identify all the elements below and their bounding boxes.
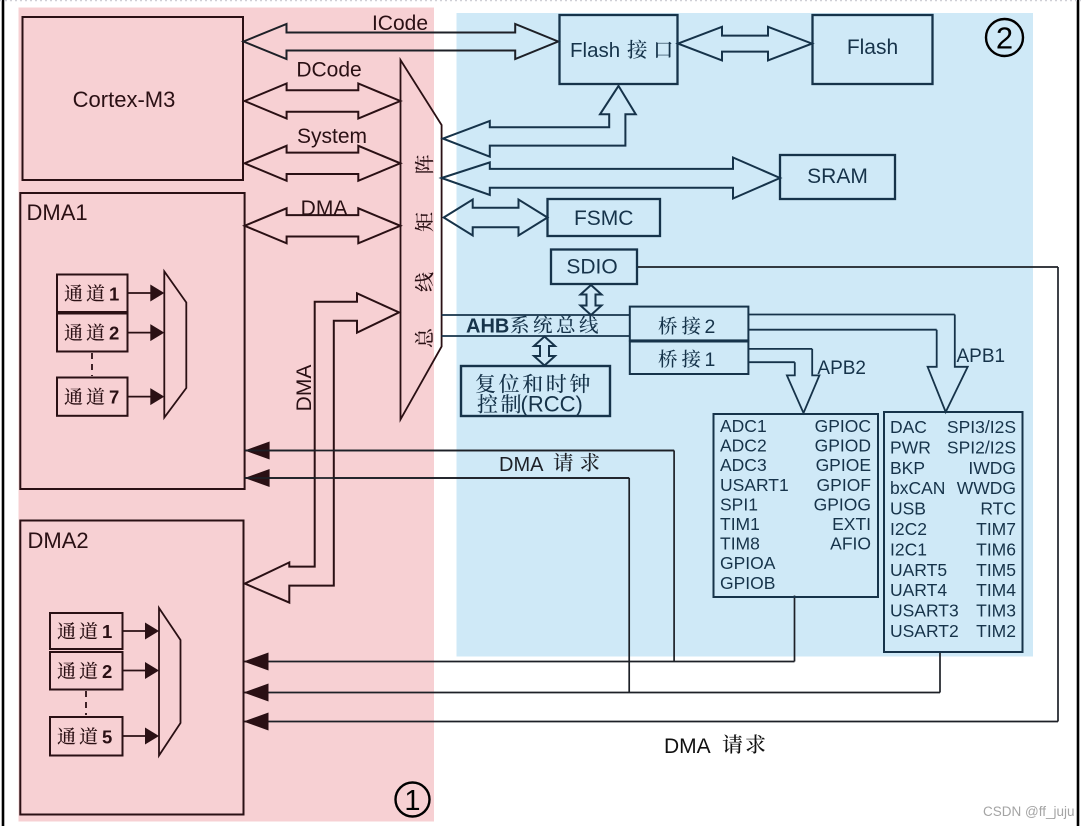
pink region (domain 1: DMA/CPU) <box>19 8 435 822</box>
bent arrow bus matrix to Flash interface <box>443 86 636 157</box>
bus matrix vertical label <box>415 155 433 173</box>
svg-text:WWDG: WWDG <box>957 478 1016 498</box>
svg-text:SDIO: SDIO <box>566 256 617 279</box>
svg-text:Cortex-M3: Cortex-M3 <box>73 87 176 112</box>
svg-text:TIM4: TIM4 <box>976 580 1016 600</box>
DMA2 box <box>20 521 243 815</box>
DMA2 channel 5 box <box>50 717 123 756</box>
svg-text:TIM6: TIM6 <box>976 539 1016 559</box>
svg-text:bxCAN: bxCAN <box>890 478 945 498</box>
svg-text:DMA: DMA <box>293 365 316 412</box>
APB2 hollow down arrow <box>787 349 820 413</box>
svg-text:TIM5: TIM5 <box>976 560 1016 580</box>
svg-text:TIM1: TIM1 <box>720 514 760 534</box>
svg-text:TIM2: TIM2 <box>976 621 1016 641</box>
svg-text:PWR: PWR <box>890 437 931 457</box>
svg-text:DMA2: DMA2 <box>28 528 89 553</box>
svg-text:AFIO: AFIO <box>830 534 871 554</box>
circled 1 <box>396 783 430 817</box>
svg-text:DMA: DMA <box>301 197 348 220</box>
AHB system bus lower line <box>442 335 630 337</box>
DMA2 channel 2 box <box>50 652 123 690</box>
wire DMA2 request line 2 <box>244 692 941 694</box>
wire bridge1 to APB2 (lower) <box>748 361 794 363</box>
svg-text:DAC: DAC <box>890 417 927 437</box>
arrow ch7 to mux <box>128 396 153 398</box>
svg-text:UART5: UART5 <box>890 560 947 580</box>
svg-text:AHB: AHB <box>466 316 509 338</box>
arrow ch2 to mux2 <box>123 670 148 672</box>
SRAM long double arrow <box>442 158 780 199</box>
circled 2 <box>986 19 1023 56</box>
svg-text:1: 1 <box>102 621 112 642</box>
FSMC box <box>548 199 661 236</box>
frame left border <box>2 0 5 826</box>
DMA1 channel 1 box <box>57 275 128 313</box>
svg-text:2: 2 <box>109 323 119 344</box>
svg-text:1: 1 <box>109 283 119 304</box>
svg-text:USB: USB <box>890 499 926 519</box>
SDIO box <box>551 250 637 285</box>
wire vertical from APB2 peripheral box bottom <box>794 596 796 662</box>
wire crossing over DMA arrow (lower) <box>245 477 630 479</box>
svg-text:1: 1 <box>705 349 716 371</box>
svg-text:USART1: USART1 <box>720 475 789 495</box>
svg-text:FSMC: FSMC <box>574 207 634 230</box>
svg-text:SPI3/I2S: SPI3/I2S <box>947 417 1016 437</box>
svg-text:CSDN @ff_juju: CSDN @ff_juju <box>983 804 1075 819</box>
DMA1 mux trapezoid <box>164 271 186 417</box>
bus matrix trapezoid <box>401 60 442 420</box>
svg-text:APB1: APB1 <box>957 346 1006 367</box>
svg-text:GPIOA: GPIOA <box>720 553 776 573</box>
svg-text:GPIOF: GPIOF <box>817 475 871 495</box>
svg-text:BKP: BKP <box>890 458 925 478</box>
frame right border <box>1077 0 1080 826</box>
blue region (domain 2: buses/peripherals) <box>457 13 1034 657</box>
svg-text:TIM7: TIM7 <box>976 519 1016 539</box>
AHB system bus upper line <box>442 314 630 316</box>
svg-text:I2C2: I2C2 <box>890 519 927 539</box>
svg-text:SPI1: SPI1 <box>720 494 758 514</box>
Flash box <box>813 15 933 84</box>
wire DMA request line into DMA1 (upper) <box>245 450 674 452</box>
Flash interface box <box>560 15 678 84</box>
svg-text:SPI2/I2S: SPI2/I2S <box>947 437 1016 457</box>
svg-text:GPIOC: GPIOC <box>815 416 871 436</box>
svg-text:TIM3: TIM3 <box>976 601 1016 621</box>
svg-text:SRAM: SRAM <box>807 165 868 188</box>
svg-text:ADC1: ADC1 <box>720 416 767 436</box>
svg-text:ADC2: ADC2 <box>720 436 767 456</box>
svg-text:APB2: APB2 <box>817 358 866 379</box>
svg-text:GPIOE: GPIOE <box>816 455 871 475</box>
DMA double arrow <box>245 208 401 243</box>
dashed line channels 2..7 <box>91 353 93 376</box>
SRAM box <box>780 155 895 199</box>
svg-text:USART2: USART2 <box>890 621 959 641</box>
svg-text:System: System <box>297 125 367 148</box>
arrow ch1 to mux <box>128 292 153 294</box>
svg-text:UART4: UART4 <box>890 580 947 600</box>
RCC vertical double arrow <box>534 337 555 366</box>
svg-text:USART3: USART3 <box>890 601 959 621</box>
svg-text:GPIOG: GPIOG <box>814 494 871 514</box>
svg-text:EXTI: EXTI <box>832 514 871 534</box>
arrow ch5 to mux2 <box>123 735 148 737</box>
svg-text:Flash: Flash <box>570 39 620 62</box>
wire crossing over DMA arrow (upper) <box>245 450 674 452</box>
bridge2 box <box>630 307 749 341</box>
svg-text:ADC3: ADC3 <box>720 455 767 475</box>
svg-text:GPIOB: GPIOB <box>720 573 775 593</box>
arrow ch1 to mux2 <box>123 630 148 632</box>
svg-text:GPIOD: GPIOD <box>815 436 871 456</box>
svg-text:Flash: Flash <box>847 36 898 59</box>
wire bridge2 to APB1 (upper) <box>748 314 954 316</box>
wire vertical from APB1 peripheral box bottom <box>939 652 941 693</box>
System double arrow <box>245 146 401 181</box>
DCode double arrow <box>245 84 401 119</box>
dashed line channels 2..5 <box>85 691 87 715</box>
CPU Cortex-M3 box <box>23 17 244 180</box>
svg-text:7: 7 <box>109 387 119 408</box>
DMA2 mux trapezoid <box>159 608 181 756</box>
svg-text:I2C1: I2C1 <box>890 539 927 559</box>
wire bridge1 to APB2 (upper) <box>748 348 812 350</box>
APB1 peripherals box <box>884 412 1023 652</box>
svg-text:TIM8: TIM8 <box>720 534 760 554</box>
svg-text:IWDG: IWDG <box>968 458 1016 478</box>
svg-text:5: 5 <box>102 726 112 747</box>
wire DMA2 request line 3 <box>244 721 1059 723</box>
svg-text:(RCC): (RCC) <box>521 392 583 417</box>
DMA1 channel 7 box <box>57 378 128 416</box>
wire SDIO to right edge <box>637 266 1058 268</box>
svg-text:2: 2 <box>996 21 1013 56</box>
RCC box <box>461 366 610 416</box>
APB2 peripherals box <box>714 414 879 597</box>
wire vertical from DMA1 upper request line <box>673 451 675 662</box>
arrow ch2 to mux <box>128 332 153 334</box>
svg-text:1: 1 <box>404 785 420 817</box>
wire DMA2 request line 1 <box>244 661 795 663</box>
ICode double arrow <box>244 24 559 59</box>
SDIO vertical double arrow <box>581 285 602 315</box>
svg-text:DMA: DMA <box>664 735 711 758</box>
APB1 hollow down arrow <box>928 315 968 413</box>
wire bridge2 to APB1 (lower) <box>748 329 936 331</box>
bent DMA arrow from DMA2 up to bus matrix <box>245 293 399 602</box>
svg-text:2: 2 <box>705 316 716 338</box>
svg-text:ICode: ICode <box>372 12 428 35</box>
DMA1 box <box>20 193 244 489</box>
FSMC double arrow <box>444 200 548 236</box>
DMA1 channel 2 box <box>57 314 128 352</box>
svg-text:RTC: RTC <box>980 499 1016 519</box>
svg-text:DCode: DCode <box>296 59 361 82</box>
Flash iface <-> Flash double arrow <box>678 27 812 61</box>
svg-text:2: 2 <box>102 661 112 682</box>
svg-text:DMA1: DMA1 <box>27 200 88 225</box>
wire vertical from DMA1 lower request line <box>628 478 630 693</box>
top dotted border <box>0 0 1081 2</box>
wire DMA request line into DMA1 (lower) <box>245 477 630 479</box>
bridge1 box <box>630 342 749 375</box>
svg-text:DMA: DMA <box>499 454 544 476</box>
wire right-edge vertical from SDIO line down <box>1057 267 1059 722</box>
DMA2 channel 1 box <box>50 613 123 649</box>
